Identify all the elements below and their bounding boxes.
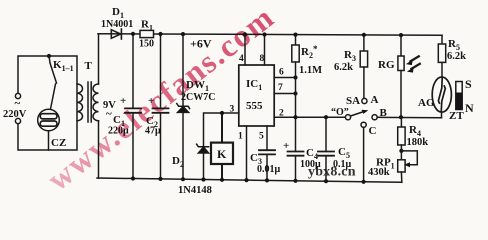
svg-text:4: 4 — [239, 54, 244, 64]
svg-text:6.2k: 6.2k — [447, 51, 466, 62]
plug box CZ enclosure — [18, 56, 77, 150]
resistor R1 — [140, 30, 154, 37]
reed switch AG — [432, 77, 451, 112]
svg-text:~: ~ — [15, 98, 21, 110]
svg-text:T: T — [85, 60, 93, 72]
svg-text:N: N — [465, 101, 474, 115]
magnet ZT — [456, 82, 462, 110]
svg-text:180k: 180k — [407, 137, 429, 148]
svg-text:0.1μ: 0.1μ — [333, 159, 352, 170]
diode D1 on rail — [111, 30, 120, 39]
svg-text:0.01μ: 0.01μ — [257, 164, 281, 175]
svg-text:+: + — [283, 140, 289, 152]
capacitor C5 — [325, 117, 327, 151]
resistor R5 — [441, 35, 443, 44]
wire secondary bottom to rail — [98, 121, 100, 178]
svg-text:1: 1 — [238, 132, 243, 142]
transformer core — [87, 82, 89, 122]
svg-text:220V: 220V — [3, 109, 27, 120]
resistor R4 — [400, 118, 402, 128]
svg-text:6.2k: 6.2k — [334, 62, 353, 73]
top rail — [98, 34, 442, 36]
svg-text:1N4001: 1N4001 — [101, 19, 133, 30]
photoresistor RG — [400, 35, 402, 56]
svg-text:1N4148: 1N4148 — [178, 185, 212, 196]
capacitor C4 — [288, 151, 304, 153]
svg-text:5: 5 — [259, 132, 264, 142]
resistor R3 — [363, 35, 365, 51]
potentiometer RP1 — [398, 160, 405, 172]
svg-text:ZT: ZT — [449, 110, 464, 122]
svg-text:C: C — [369, 125, 377, 137]
wire B terminal to node — [377, 116, 441, 118]
svg-text:~: ~ — [106, 108, 112, 120]
svg-text:6: 6 — [279, 68, 284, 78]
svg-text:RG: RG — [378, 59, 395, 71]
resistor R2 — [295, 35, 297, 45]
wire CZ to box bottom — [48, 131, 50, 150]
switch terminal C — [361, 122, 366, 127]
220V source terminals — [15, 93, 20, 98]
pin 6 wire — [274, 77, 295, 79]
switch terminal B — [372, 115, 377, 120]
svg-text:7: 7 — [278, 83, 283, 93]
bottom rail — [97, 178, 402, 182]
svg-text:3: 3 — [230, 105, 235, 115]
svg-text:555: 555 — [246, 100, 263, 112]
wire secondary top to rail — [98, 34, 100, 84]
transformer T secondary — [93, 84, 98, 121]
capacitor C1 — [132, 34, 134, 108]
pin 5 wire — [266, 126, 268, 150]
zener DW1 — [182, 34, 184, 106]
svg-text:S: S — [465, 77, 472, 91]
pin 1 wire — [246, 126, 248, 180]
pin 4 wire — [244, 34, 246, 65]
svg-text:AG: AG — [418, 97, 435, 109]
light arrows — [411, 56, 420, 69]
svg-text:+: + — [120, 95, 126, 107]
transformer T primary — [77, 84, 83, 121]
pin 7 wire — [274, 93, 295, 95]
switch SA terminal O — [345, 115, 350, 120]
svg-text:2: 2 — [279, 109, 284, 119]
svg-text:430k: 430k — [368, 167, 390, 178]
svg-text:47μ: 47μ — [145, 126, 161, 137]
svg-text:100μ: 100μ — [300, 159, 321, 170]
svg-text:CZ: CZ — [51, 137, 66, 149]
svg-text:1.1M: 1.1M — [299, 65, 322, 76]
pin numbers — [230, 54, 285, 142]
switch SA wiper — [351, 112, 365, 117]
svg-text:SA: SA — [346, 95, 360, 107]
diode D2 — [197, 144, 209, 147]
svg-text:150: 150 — [139, 39, 154, 50]
svg-text:8: 8 — [260, 54, 265, 64]
pin 2 wire to switch O — [274, 116, 345, 118]
svg-text:+6V: +6V — [190, 37, 212, 51]
socket CZ — [38, 109, 60, 131]
switch terminal A — [362, 98, 367, 103]
pin 8 wire — [264, 35, 266, 66]
svg-text:220μ: 220μ — [108, 126, 129, 137]
svg-text:2CW7C: 2CW7C — [181, 92, 215, 103]
relay K — [221, 113, 223, 143]
svg-text:“O”: “O” — [331, 107, 349, 118]
switch K1-1 — [47, 54, 51, 58]
pin 3 wire — [204, 113, 239, 147]
wire C terminal to ground rail — [363, 127, 365, 181]
svg-text:A: A — [371, 94, 379, 106]
wiper link R4/RP1 — [401, 151, 417, 165]
IC1 555 timer box — [239, 65, 274, 126]
svg-text:B: B — [380, 107, 388, 119]
capacitor C3 — [259, 149, 275, 151]
svg-text:K: K — [217, 147, 227, 161]
capacitor C2 — [160, 34, 162, 108]
svg-text:+: + — [148, 95, 154, 107]
